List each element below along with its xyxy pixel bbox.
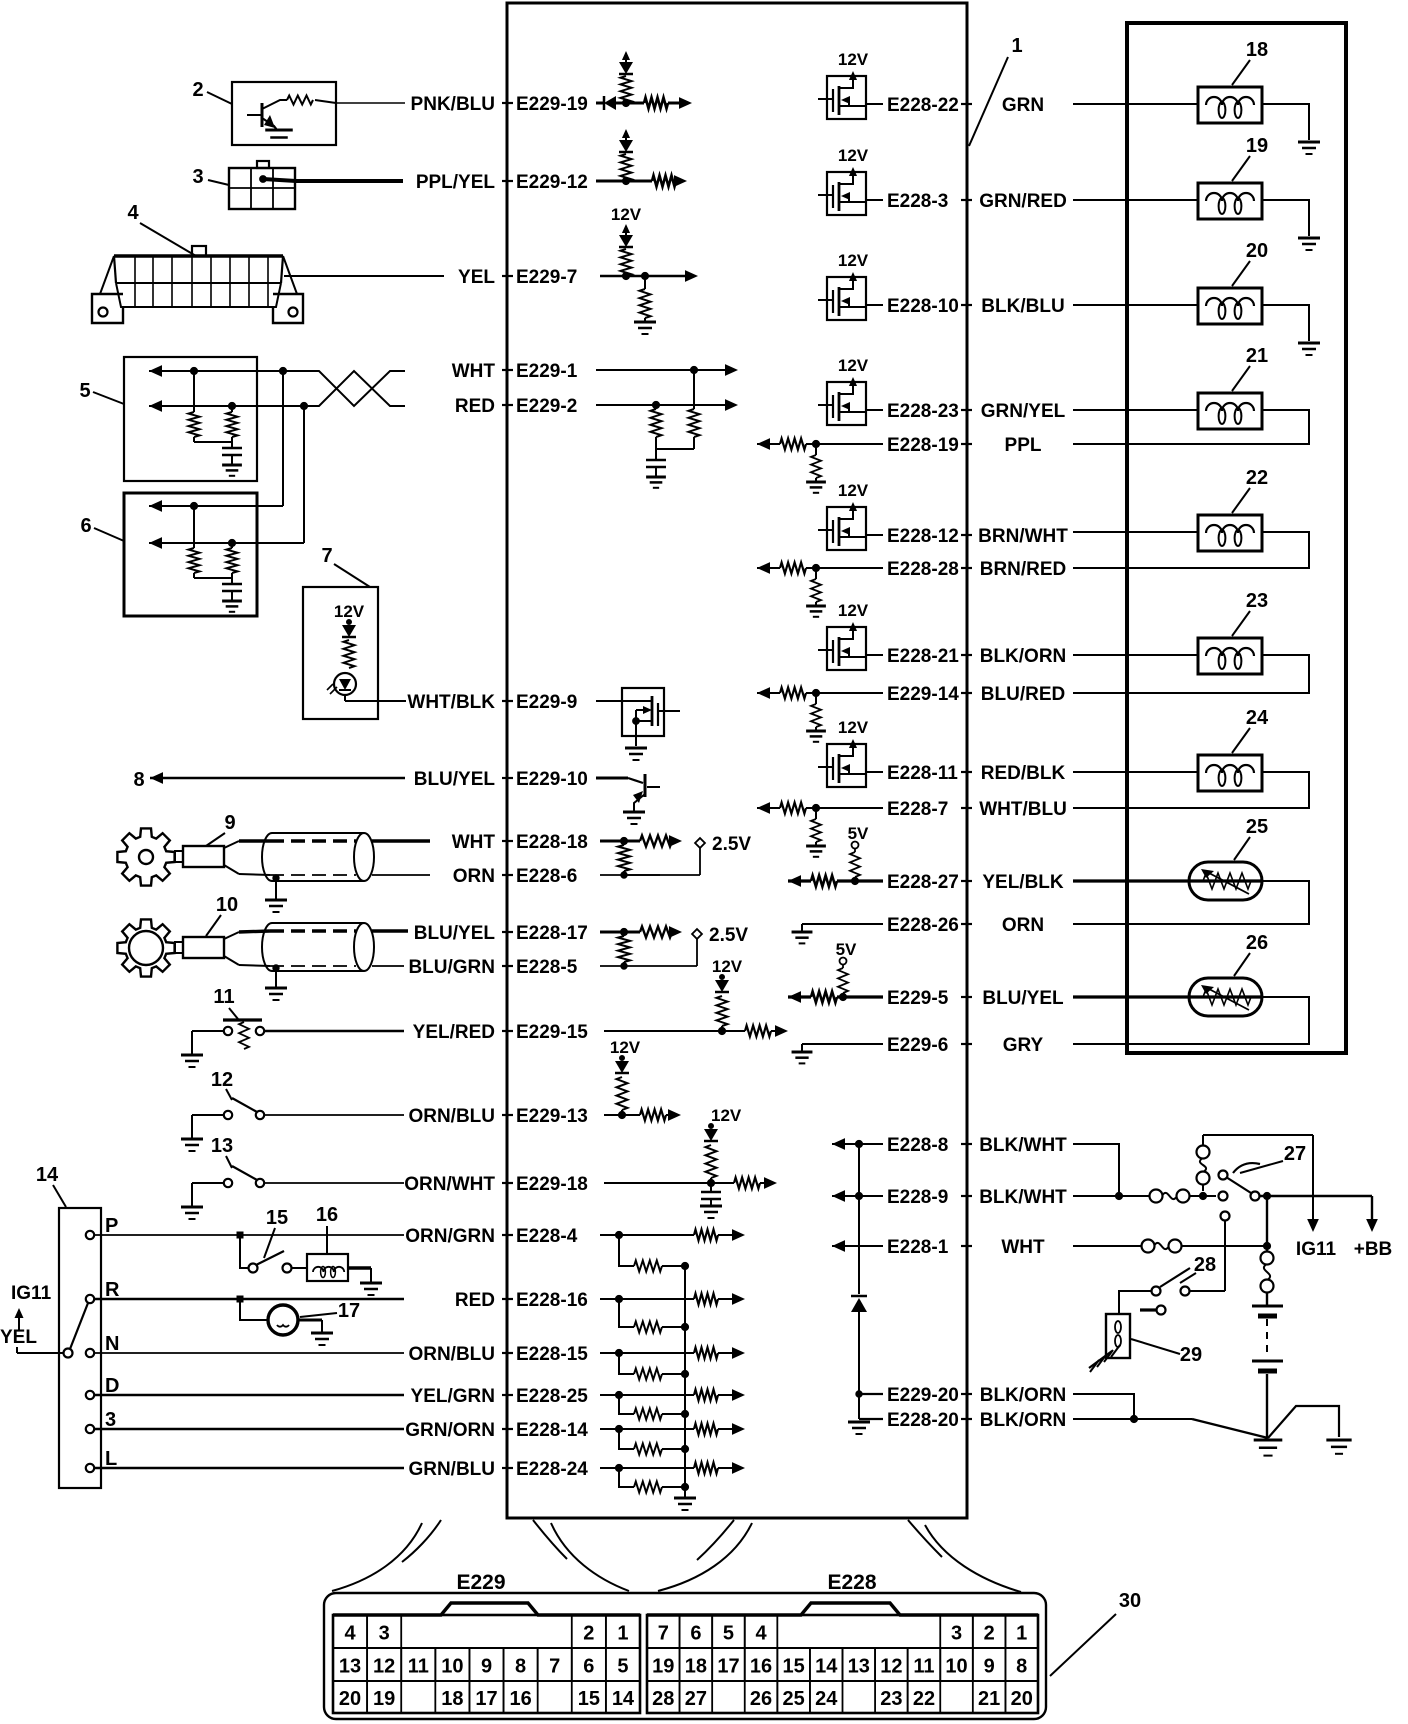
svg-text:28: 28 [652, 1688, 674, 1710]
svg-text:25: 25 [783, 1688, 805, 1710]
svg-text:13: 13 [211, 1135, 233, 1157]
svg-text:26: 26 [1246, 932, 1268, 954]
svg-text:E229-14: E229-14 [887, 684, 959, 705]
svg-text:27: 27 [1284, 1143, 1306, 1165]
svg-text:BLU/GRN: BLU/GRN [408, 957, 495, 978]
svg-text:E228-6: E228-6 [516, 866, 577, 887]
svg-text:17: 17 [338, 1300, 360, 1322]
svg-text:BLU/RED: BLU/RED [981, 684, 1065, 705]
svg-text:1: 1 [1016, 1623, 1027, 1645]
svg-text:E229-12: E229-12 [516, 172, 588, 193]
svg-text:2: 2 [583, 1623, 594, 1645]
svg-text:E228-23: E228-23 [887, 401, 959, 422]
svg-text:14: 14 [36, 1164, 59, 1186]
svg-text:19: 19 [652, 1656, 674, 1678]
svg-text:23: 23 [880, 1688, 902, 1710]
svg-text:10: 10 [216, 894, 238, 916]
svg-text:15: 15 [578, 1688, 600, 1710]
svg-text:BRN/RED: BRN/RED [980, 559, 1067, 580]
svg-text:E228-25: E228-25 [516, 1386, 588, 1407]
svg-text:9: 9 [481, 1656, 492, 1678]
svg-text:4: 4 [755, 1623, 767, 1645]
svg-text:16: 16 [316, 1204, 338, 1226]
svg-text:YEL/GRN: YEL/GRN [411, 1386, 495, 1407]
svg-text:9: 9 [224, 812, 235, 834]
svg-text:L: L [105, 1448, 117, 1470]
svg-text:5: 5 [617, 1656, 628, 1678]
svg-text:8: 8 [133, 769, 144, 791]
svg-text:11: 11 [913, 1656, 934, 1678]
svg-text:5: 5 [723, 1623, 734, 1645]
svg-text:ORN: ORN [453, 866, 495, 887]
svg-text:28: 28 [1194, 1254, 1216, 1276]
svg-text:E229-2: E229-2 [516, 396, 577, 417]
svg-text:E228-15: E228-15 [516, 1344, 588, 1365]
svg-text:12V: 12V [838, 146, 869, 165]
svg-text:E229-10: E229-10 [516, 769, 588, 790]
svg-text:12V: 12V [611, 205, 642, 224]
svg-text:20: 20 [1011, 1688, 1033, 1710]
svg-text:15: 15 [783, 1656, 805, 1678]
svg-text:E229-18: E229-18 [516, 1174, 588, 1195]
svg-text:15: 15 [266, 1207, 288, 1229]
svg-text:E228-11: E228-11 [887, 763, 958, 784]
svg-text:ORN/BLU: ORN/BLU [408, 1344, 495, 1365]
svg-text:ORN/WHT: ORN/WHT [404, 1174, 495, 1195]
svg-text:25: 25 [1246, 816, 1268, 838]
svg-text:17: 17 [475, 1688, 497, 1710]
svg-text:21: 21 [1246, 345, 1268, 367]
svg-text:10: 10 [945, 1656, 967, 1678]
svg-text:WHT: WHT [1001, 1237, 1045, 1258]
svg-text:PNK/BLU: PNK/BLU [411, 94, 495, 115]
svg-text:12V: 12V [712, 957, 743, 976]
svg-text:GRN/RED: GRN/RED [979, 191, 1067, 212]
svg-text:E228-21: E228-21 [887, 646, 959, 667]
svg-text:E228-26: E228-26 [887, 915, 959, 936]
svg-text:GRN/YEL: GRN/YEL [981, 401, 1066, 422]
svg-text:BLU/YEL: BLU/YEL [414, 769, 496, 790]
svg-text:E228-28: E228-28 [887, 559, 959, 580]
svg-text:6: 6 [80, 515, 91, 537]
svg-text:E228-14: E228-14 [516, 1420, 588, 1441]
svg-text:24: 24 [1246, 707, 1269, 729]
svg-text:E228-20: E228-20 [887, 1410, 959, 1431]
svg-text:12V: 12V [838, 50, 869, 69]
svg-text:E228-7: E228-7 [887, 799, 948, 820]
svg-text:YEL: YEL [458, 267, 495, 288]
svg-text:E229-13: E229-13 [516, 1106, 588, 1127]
svg-text:12V: 12V [610, 1038, 641, 1057]
svg-text:E228-22: E228-22 [887, 95, 959, 116]
svg-text:E229-15: E229-15 [516, 1022, 588, 1043]
svg-text:29: 29 [1180, 1344, 1202, 1366]
svg-text:E229-6: E229-6 [887, 1035, 948, 1056]
svg-text:19: 19 [373, 1688, 395, 1710]
svg-text:4: 4 [127, 202, 139, 224]
svg-text:E229-1: E229-1 [516, 361, 578, 382]
svg-text:RED: RED [455, 1290, 495, 1311]
svg-text:BLK/ORN: BLK/ORN [980, 646, 1067, 667]
svg-text:12: 12 [373, 1656, 395, 1678]
svg-text:12V: 12V [838, 718, 869, 737]
svg-text:E229-20: E229-20 [887, 1385, 959, 1406]
svg-text:ORN: ORN [1002, 915, 1044, 936]
svg-text:E229-7: E229-7 [516, 267, 577, 288]
svg-text:7: 7 [549, 1656, 560, 1678]
svg-text:N: N [105, 1333, 119, 1355]
svg-text:14: 14 [815, 1656, 838, 1678]
svg-text:RED/BLK: RED/BLK [981, 763, 1066, 784]
svg-text:8: 8 [515, 1656, 526, 1678]
svg-text:12V: 12V [838, 601, 869, 620]
svg-text:BLK/WHT: BLK/WHT [979, 1187, 1067, 1208]
svg-text:E228: E228 [827, 1571, 876, 1594]
svg-text:20: 20 [339, 1688, 361, 1710]
svg-text:BLK/ORN: BLK/ORN [980, 1385, 1067, 1406]
svg-text:6: 6 [583, 1656, 594, 1678]
svg-text:WHT: WHT [452, 832, 496, 853]
svg-text:3: 3 [192, 166, 203, 188]
svg-text:24: 24 [815, 1688, 838, 1710]
svg-text:12: 12 [211, 1069, 233, 1091]
svg-text:R: R [105, 1279, 120, 1301]
svg-text:13: 13 [848, 1656, 870, 1678]
svg-text:E229-19: E229-19 [516, 94, 588, 115]
svg-text:WHT: WHT [452, 361, 496, 382]
svg-text:21: 21 [978, 1688, 1000, 1710]
svg-text:12V: 12V [838, 481, 869, 500]
svg-text:8: 8 [1016, 1656, 1027, 1678]
svg-text:12V: 12V [711, 1106, 742, 1125]
svg-text:E228-24: E228-24 [516, 1459, 588, 1480]
svg-text:E229-5: E229-5 [887, 988, 949, 1009]
svg-text:6: 6 [690, 1623, 701, 1645]
svg-text:18: 18 [685, 1656, 707, 1678]
svg-text:E228-19: E228-19 [887, 435, 959, 456]
svg-text:9: 9 [984, 1656, 995, 1678]
svg-text:PPL/YEL: PPL/YEL [416, 172, 496, 193]
svg-text:16: 16 [509, 1688, 531, 1710]
svg-text:20: 20 [1246, 240, 1268, 262]
svg-text:11: 11 [408, 1656, 429, 1678]
svg-text:3: 3 [379, 1623, 390, 1645]
svg-text:BLU/YEL: BLU/YEL [982, 988, 1064, 1009]
svg-text:GRN/BLU: GRN/BLU [408, 1459, 495, 1480]
svg-text:12V: 12V [334, 602, 365, 621]
svg-text:ORN/BLU: ORN/BLU [408, 1106, 495, 1127]
svg-text:5V: 5V [848, 824, 869, 843]
svg-text:7: 7 [321, 545, 332, 567]
svg-text:E228-12: E228-12 [887, 526, 959, 547]
svg-text:1: 1 [1011, 35, 1022, 57]
svg-text:2.5V: 2.5V [709, 925, 748, 946]
svg-text:E228-17: E228-17 [516, 923, 588, 944]
svg-text:18: 18 [1246, 39, 1268, 61]
svg-text:BLU/YEL: BLU/YEL [414, 923, 496, 944]
svg-text:12V: 12V [838, 251, 869, 270]
svg-text:22: 22 [913, 1688, 935, 1710]
svg-text:12: 12 [880, 1656, 902, 1678]
svg-text:E228-4: E228-4 [516, 1226, 578, 1247]
svg-text:YEL: YEL [0, 1327, 37, 1348]
svg-text:3: 3 [105, 1409, 116, 1431]
svg-text:E229: E229 [456, 1571, 505, 1594]
svg-text:22: 22 [1246, 467, 1268, 489]
svg-text:16: 16 [750, 1656, 772, 1678]
svg-text:PPL: PPL [1005, 435, 1042, 456]
svg-text:WHT/BLU: WHT/BLU [979, 799, 1067, 820]
svg-text:18: 18 [441, 1688, 463, 1710]
svg-text:BLK/WHT: BLK/WHT [979, 1135, 1067, 1156]
svg-text:IG11: IG11 [1296, 1239, 1337, 1260]
svg-text:3: 3 [951, 1623, 962, 1645]
svg-text:2.5V: 2.5V [712, 834, 751, 855]
svg-text:17: 17 [717, 1656, 739, 1678]
svg-text:11: 11 [213, 986, 234, 1008]
svg-text:2: 2 [192, 79, 203, 101]
svg-text:E228-16: E228-16 [516, 1290, 588, 1311]
svg-text:1: 1 [617, 1623, 628, 1645]
svg-text:2: 2 [984, 1623, 995, 1645]
svg-text:GRN: GRN [1002, 95, 1044, 116]
svg-text:23: 23 [1246, 590, 1268, 612]
svg-text:ORN/GRN: ORN/GRN [405, 1226, 495, 1247]
svg-text:E228-1: E228-1 [887, 1237, 949, 1258]
svg-text:E228-5: E228-5 [516, 957, 578, 978]
svg-text:10: 10 [441, 1656, 463, 1678]
svg-text:E228-27: E228-27 [887, 872, 959, 893]
svg-text:BLK/BLU: BLK/BLU [981, 296, 1064, 317]
svg-text:P: P [105, 1215, 118, 1237]
svg-text:RED: RED [455, 396, 495, 417]
svg-text:YEL/RED: YEL/RED [413, 1022, 495, 1043]
svg-text:E228-8: E228-8 [887, 1135, 948, 1156]
svg-text:19: 19 [1246, 135, 1268, 157]
svg-text:WHT/BLK: WHT/BLK [407, 692, 495, 713]
svg-text:26: 26 [750, 1688, 772, 1710]
svg-text:BLK/ORN: BLK/ORN [980, 1410, 1067, 1431]
svg-text:5: 5 [79, 380, 90, 402]
svg-text:D: D [105, 1375, 119, 1397]
svg-text:5V: 5V [836, 940, 857, 959]
svg-text:E228-9: E228-9 [887, 1187, 948, 1208]
svg-text:BRN/WHT: BRN/WHT [978, 526, 1068, 547]
svg-text:13: 13 [339, 1656, 361, 1678]
svg-text:+BB: +BB [1354, 1239, 1393, 1260]
svg-text:12V: 12V [838, 356, 869, 375]
svg-text:GRN/ORN: GRN/ORN [405, 1420, 495, 1441]
svg-text:YEL/BLK: YEL/BLK [982, 872, 1064, 893]
svg-text:E228-10: E228-10 [887, 296, 959, 317]
svg-text:E229-9: E229-9 [516, 692, 577, 713]
svg-text:27: 27 [685, 1688, 707, 1710]
svg-text:E228-18: E228-18 [516, 832, 588, 853]
svg-text:GRY: GRY [1003, 1035, 1044, 1056]
svg-text:E228-3: E228-3 [887, 191, 948, 212]
svg-text:IG11: IG11 [11, 1283, 52, 1304]
svg-text:30: 30 [1119, 1590, 1141, 1612]
svg-text:7: 7 [658, 1623, 669, 1645]
svg-text:4: 4 [344, 1623, 356, 1645]
svg-text:14: 14 [612, 1688, 635, 1710]
